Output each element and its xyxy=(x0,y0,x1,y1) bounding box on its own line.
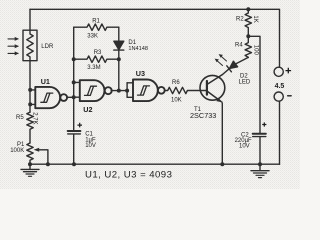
svg-text:10V: 10V xyxy=(239,144,250,150)
diode D1 xyxy=(114,27,124,90)
LDR body xyxy=(23,30,37,61)
node U1 input bottom xyxy=(28,102,32,106)
label plus C1 xyxy=(77,123,82,128)
node P1 bottom xyxy=(28,162,32,166)
wire T1 emitter down xyxy=(221,102,223,164)
svg-text:U2: U2 xyxy=(83,105,92,114)
wire LDR top xyxy=(29,9,31,30)
svg-text:1N4148: 1N4148 xyxy=(128,46,148,52)
node U3 tie xyxy=(125,89,129,93)
wire U2 input stubs xyxy=(74,82,80,97)
node C1-rail xyxy=(72,162,76,166)
ground left xyxy=(21,164,39,176)
svg-text:R4: R4 xyxy=(235,43,243,49)
resistor R1 xyxy=(74,24,119,30)
capacitor C2 xyxy=(253,134,266,165)
LDR arrows xyxy=(8,37,19,56)
svg-text:R1: R1 xyxy=(92,18,100,24)
LED D2 emission arrows xyxy=(215,54,227,65)
label plus C2 xyxy=(262,122,266,126)
capacitor C1 xyxy=(68,131,81,164)
op-amp U3 gate xyxy=(133,80,165,102)
svg-text:1K: 1K xyxy=(252,15,258,22)
svg-text:2SC733: 2SC733 xyxy=(190,111,216,120)
svg-text:100K: 100K xyxy=(10,148,24,154)
svg-text:LDR: LDR xyxy=(41,44,54,50)
svg-text:U3: U3 xyxy=(136,69,145,78)
battery terminal minus xyxy=(274,92,283,101)
wire bottom rail xyxy=(30,163,280,165)
transistor T1 xyxy=(200,75,225,103)
ground right xyxy=(251,164,269,177)
node U2 in bottom / U1 out xyxy=(72,95,76,99)
wire battery minus drop xyxy=(279,101,281,164)
svg-text:100: 100 xyxy=(253,45,259,56)
node R2/R4 xyxy=(246,34,250,38)
node R3 right xyxy=(117,57,121,61)
wire U3 input stubs xyxy=(127,83,133,98)
paper background xyxy=(0,0,300,189)
node U2 in top xyxy=(72,80,76,84)
svg-text:2.7K: 2.7K xyxy=(32,112,38,124)
op-amp U1 gate (NAND 4093) xyxy=(35,87,67,108)
svg-text:D2: D2 xyxy=(240,74,248,80)
label battery plus xyxy=(286,68,292,74)
svg-text:C1: C1 xyxy=(85,131,93,137)
node U1 input top xyxy=(28,88,32,92)
svg-text:R2: R2 xyxy=(236,16,244,22)
resistor R2 xyxy=(245,9,251,36)
node R2 top xyxy=(246,7,250,11)
wire node to C2 xyxy=(248,36,260,133)
wire top rail xyxy=(30,9,280,67)
svg-text:P1: P1 xyxy=(17,142,25,148)
svg-text:U1, U2, U3 = 4093: U1, U2, U3 = 4093 xyxy=(85,170,172,181)
wire U1 input stubs xyxy=(30,90,35,105)
svg-text:R6: R6 xyxy=(172,80,180,86)
svg-text:10K: 10K xyxy=(171,97,182,103)
node P1 wiper-rail xyxy=(46,162,50,166)
battery terminal plus xyxy=(274,67,283,76)
svg-text:10V: 10V xyxy=(85,143,96,149)
resistor R3 xyxy=(74,56,119,62)
svg-text:R5: R5 xyxy=(16,115,24,121)
resistor R6 xyxy=(165,87,207,93)
svg-text:4.5: 4.5 xyxy=(275,83,285,90)
svg-text:33K: 33K xyxy=(87,34,98,40)
wire U2 output to U3 xyxy=(111,90,127,92)
wire U1 output xyxy=(67,96,74,98)
wire LDR bottom to R5 xyxy=(29,61,31,112)
svg-text:3.3M: 3.3M xyxy=(87,65,100,71)
node feedback right at U2 out xyxy=(117,89,121,93)
wire feedback left vertical xyxy=(73,27,75,131)
node emitter-rail xyxy=(220,162,224,166)
LED D2 xyxy=(223,57,249,74)
node C2-rail xyxy=(258,162,262,166)
node R3 left xyxy=(72,57,76,61)
label battery minus xyxy=(288,95,292,97)
resistor R5 xyxy=(27,112,33,143)
wire U3 input tie bar xyxy=(126,83,128,98)
potentiometer P1 xyxy=(27,143,48,164)
svg-text:R3: R3 xyxy=(94,50,102,56)
resistor R4 xyxy=(245,36,251,57)
svg-text:LED: LED xyxy=(239,80,251,86)
svg-text:U1: U1 xyxy=(41,77,50,86)
op-amp U2 gate xyxy=(80,80,112,101)
